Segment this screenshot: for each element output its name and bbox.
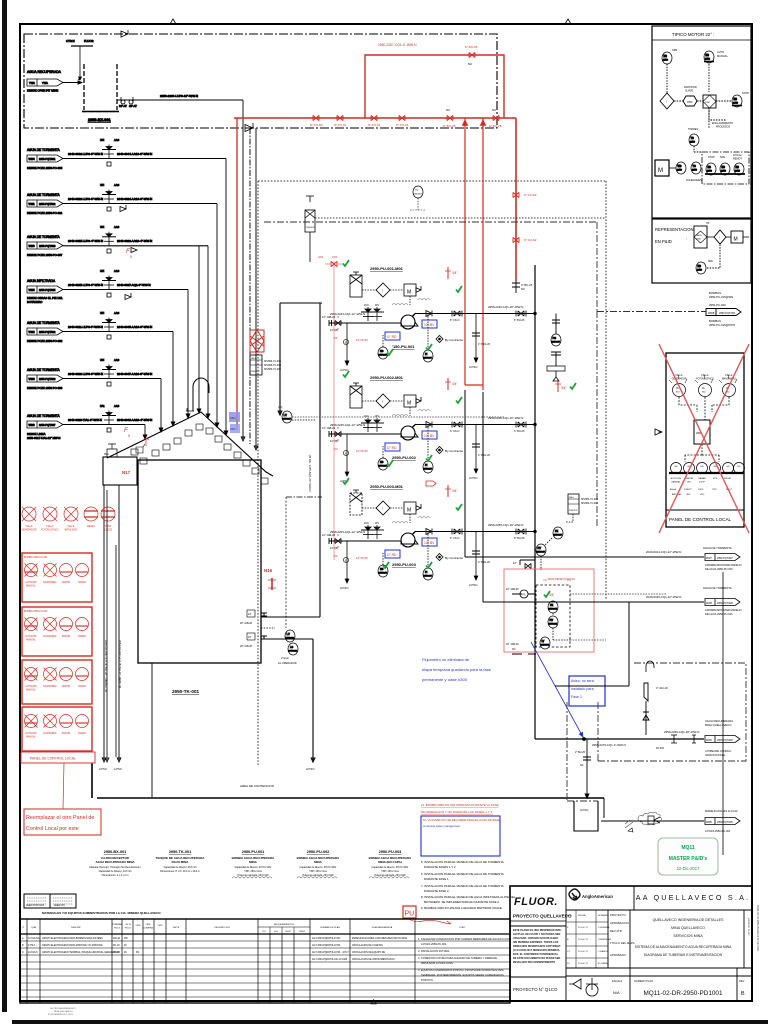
svg-text:HS: HS	[708, 166, 712, 169]
svg-text:MINA (EN CAPA): MINA (EN CAPA)	[378, 860, 402, 864]
wire row1 drop	[225, 159, 227, 434]
svg-text:2950-2200-LUP9-16"-WW-N: 2950-2200-LUP9-16"-WW-N	[160, 94, 198, 98]
svg-text:FOTOVOLTAICO: FOTOVOLTAICO	[41, 529, 59, 532]
svg-text:SUAVE: SUAVE	[685, 90, 694, 93]
svg-text:Capacidad de Diseno: 270.5 m3/: Capacidad de Diseno: 270.5 m3/hr	[300, 866, 337, 869]
svg-text:EN ESPERA: EN ESPERA	[43, 635, 57, 638]
svg-text:6" BU-25: 6" BU-25	[514, 536, 525, 540]
svg-text:MANUAL: MANUAL	[26, 585, 36, 588]
valve 8"FO-61	[337, 115, 343, 120]
signal dots to panel right	[570, 594, 666, 640]
diamond	[714, 230, 726, 244]
row5 feed	[27, 311, 173, 343]
svg-text:NC: NC	[521, 287, 525, 291]
svg-text:2950207: 2950207	[537, 552, 546, 554]
svg-text:AGUA DE TORMENTA: AGUA DE TORMENTA	[27, 235, 60, 239]
valve 6"BU-25	[518, 311, 524, 316]
pump P3 2950-PU-003	[401, 533, 415, 547]
svg-text:HS: HS	[380, 461, 384, 464]
svg-text:2950207: 2950207	[569, 510, 578, 512]
vent pair on suction	[361, 307, 375, 321]
svg-text:FL: FL	[523, 593, 527, 597]
svg-text:PI: PI	[425, 464, 428, 467]
svg-text:R.CHAVA: R.CHAVA	[598, 962, 608, 965]
svg-text:UFI: UFI	[100, 225, 104, 229]
svg-text:2950-2267-CQ1-4"-WW-N: 2950-2267-CQ1-4"-WW-N	[378, 43, 417, 47]
svg-text:2950: 2950	[697, 270, 703, 272]
left feed rows	[27, 138, 226, 440]
svg-text:CERT: CERT	[285, 931, 292, 933]
row6 feed	[27, 358, 161, 390]
svg-text:NOMBRE DE PLAN: NOMBRE DE PLAN	[320, 926, 340, 929]
svg-text:2950207: 2950207	[554, 535, 563, 537]
svg-text:12" (B): 12" (B)	[330, 546, 338, 550]
svg-text:empresas water management: empresas water management	[423, 824, 460, 828]
svg-text:2950: 2950	[707, 171, 713, 173]
svg-text:22-DIC-17: 22-DIC-17	[578, 963, 589, 965]
svg-text:TIPICO MOTOR 22° :: TIPICO MOTOR 22° :	[672, 32, 714, 37]
interlock diamond U2	[376, 394, 390, 408]
svg-text:2040-6045-AA1S-6"-WW-N: 2040-6045-AA1S-6"-WW-N	[117, 325, 152, 329]
wire row5 drop	[172, 332, 174, 425]
svg-text:PROYECTO N° Q1CO: PROYECTO N° Q1CO	[513, 987, 558, 992]
boundary dotted right x606	[605, 181, 607, 600]
svg-text:2950: 2950	[733, 103, 739, 105]
table rows content	[22, 937, 408, 961]
svg-text:CIRCULACION DE INSTRUMENTACION: CIRCULACION DE INSTRUMENTACION	[352, 958, 395, 961]
svg-text:YWA: YWA	[29, 81, 35, 85]
drain drop w/ valve	[574, 739, 604, 831]
svg-text:DE OPERACION Y NO DURANTE LAS: DE OPERACION Y NO DURANTE LAS FASES 1 Y …	[421, 810, 493, 814]
bubble torque TC	[689, 134, 699, 146]
svg-text:3/4": 3/4"	[452, 489, 458, 493]
svg-text:PARTIR: PARTIR	[62, 635, 71, 638]
svg-text:Z3: Z3	[334, 336, 338, 340]
signal dotted LT to right	[292, 419, 316, 421]
svg-text:AGUA DE TORMENTA: AGUA DE TORMENTA	[27, 414, 60, 418]
svg-text:2950-PU-015@P076: 2950-PU-015@P076	[709, 323, 735, 327]
svg-text:5: 5	[130, 255, 132, 259]
svg-text:Capacidad de Diseno: 270.5 m3/: Capacidad de Diseno: 270.5 m3/hr	[235, 866, 272, 869]
suction pipe	[329, 540, 401, 542]
valve 6"BU-25 NC main a	[447, 115, 453, 120]
svg-text:NUMERO PLAN: NUMERO PLAN	[634, 979, 653, 983]
svg-text:AGT-1503-PQDRT/9-10743 - 10747: AGT-1503-PQDRT/9-10743 - 10747	[312, 951, 349, 954]
svg-text:2950-D2-2477-4, 6.78" BU, 6"",: 2950-D2-2477-4, 6.78" BU, 6"", MW/8, IM	[118, 640, 122, 688]
svg-text:MANUAL: MANUAL	[717, 54, 728, 58]
svg-text:ESCALA: ESCALA	[612, 979, 623, 983]
exit pipe stormwater 2	[483, 586, 741, 616]
bubbles FE FIT	[548, 601, 558, 613]
svg-text:2950207: 2950207	[414, 194, 423, 196]
instrument FE/FIT chain	[553, 527, 563, 539]
svg-text:2950-PU-003: 2950-PU-003	[379, 850, 402, 854]
svg-text:UFI: UFI	[100, 269, 104, 273]
motor M	[731, 231, 743, 243]
svg-text:M: M	[407, 290, 411, 296]
svg-text:DIAGRAMA DE TUBERIAS E INSTRUM: DIAGRAMA DE TUBERIAS E INSTRUMENTACION	[644, 953, 723, 957]
svg-text:WW8: WW8	[706, 602, 713, 605]
svg-text:AL OPERADOR: AL OPERADOR	[278, 661, 297, 665]
svg-text:6" BU-25: 6" BU-25	[465, 45, 478, 49]
svg-text:MANUAL: MANUAL	[26, 689, 36, 692]
svg-text:Capacidad de Diseno: 26.5 m3: Capacidad de Diseno: 26.5 m3	[164, 866, 197, 869]
svg-text:DE AGUA 2950-PU-015: DE AGUA 2950-PU-015	[705, 567, 733, 571]
svg-text:A PSO: A PSO	[99, 767, 107, 771]
svg-text:Material: Hierro(p). Hormigon: Material: Hierro(p). Hormigon Sin Revest…	[90, 866, 142, 869]
svg-text:By Contractor: By Contractor	[445, 449, 463, 453]
svg-text:RAJO MINA: RAJO MINA	[172, 860, 190, 864]
svg-text:2950207: 2950207	[283, 419, 292, 421]
svg-text:DESDE POZA 2950-PC-001: DESDE POZA 2950-PC-001	[27, 211, 63, 215]
filter F1	[350, 275, 362, 297]
svg-text:'150-PU-001: '150-PU-001	[392, 344, 415, 349]
valve 12" JAB-26	[335, 320, 341, 325]
title block	[510, 886, 759, 1001]
typical motor detail box	[652, 26, 751, 218]
sample point PALL box mid	[250, 210, 281, 415]
svg-text:PARAR: PARAR	[698, 477, 706, 480]
svg-text:PARTIR: PARTIR	[62, 581, 71, 584]
instrument PI	[423, 350, 433, 362]
tag PU red box	[403, 906, 416, 918]
svg-text:AAS: AAS	[114, 358, 119, 362]
svg-text:2950-BX-001: 2950-BX-001	[88, 118, 111, 122]
svg-text:10. VOLUMEN NO SE REQUIERE PAR: 10. VOLUMEN NO SE REQUIERE PARA EL CASO …	[423, 818, 500, 822]
svg-text:M: M	[407, 401, 411, 407]
svg-text:DOS. EL CONTENIDO CONFIDENCIAL: DOS. EL CONTENIDO CONFIDENCIAL	[513, 953, 559, 956]
svg-text:OTRO: OTRO	[459, 927, 466, 929]
svg-text:PROYECTO: PROYECTO	[610, 913, 626, 917]
svg-text:SP2950-YC-00B: SP2950-YC-00B	[581, 499, 598, 501]
svg-text:QUA: QUA	[31, 926, 36, 929]
svg-text:PARAR: PARAR	[78, 732, 86, 735]
svg-text:U" RD: U" RD	[387, 446, 397, 450]
svg-text:GRUPO ELECTROGENO PARA BOMBAS: GRUPO ELECTROGENO PARA BOMBAS MINA SISTE…	[42, 937, 103, 940]
svg-text:WW7: WW7	[706, 557, 713, 560]
svg-text:2K: 2K	[124, 952, 127, 954]
red vent tick	[447, 267, 449, 279]
svg-text:PC-18: PC-18	[113, 945, 120, 947]
svg-text:Z3: Z3	[334, 447, 338, 451]
svg-text:SPE: SPE	[713, 478, 718, 480]
svg-text:UFI: UFI	[100, 311, 104, 315]
svg-text:2950-PC-020: 2950-PC-020	[709, 303, 726, 307]
strainer Y	[643, 661, 668, 735]
svg-text:RESET: RESET	[724, 478, 732, 480]
svg-text:SP2950-YC-00C: SP2950-YC-00C	[581, 503, 598, 505]
valve 6"BU-25 loop	[469, 52, 475, 57]
valve 6"CK-N w/flanges	[454, 311, 460, 316]
pennant on box bottom right	[245, 123, 253, 132]
svg-text:HS: HS	[698, 265, 702, 268]
svg-text:DESDE POZA 2950-PC-003: DESDE POZA 2950-PC-003	[27, 386, 63, 390]
svg-text:2950207: 2950207	[552, 342, 561, 344]
tank vent gooseneck	[193, 378, 209, 411]
svg-text:12" (B): 12" (B)	[330, 328, 338, 332]
svg-text:1. CANALIZAR CONDUCCION POR CA: 1. CANALIZAR CONDUCCION POR CAMARA DERRA…	[418, 937, 511, 941]
svg-text:TIPC: TIPC	[712, 489, 717, 491]
svg-text:TC: TC	[693, 165, 696, 168]
svg-text:TC: TC	[691, 137, 694, 140]
svg-text:2950: 2950	[690, 142, 696, 144]
svg-text:MINA QUELLAVECO: MINA QUELLAVECO	[671, 926, 705, 930]
filter F2	[350, 386, 362, 408]
row7 feed	[27, 404, 152, 440]
svg-text:AREA DE CONTENCION: AREA DE CONTENCION	[240, 784, 274, 788]
motor M typical	[655, 160, 669, 176]
svg-text:4" PSO-26: 4" PSO-26	[478, 454, 490, 457]
motor M3	[404, 502, 416, 514]
svg-text:1/NSPT: 1/NSPT	[684, 489, 692, 491]
svg-text:ESPECIFICACIONES CONCRETA/BLD: ESPECIFICACIONES CONCRETA/BLD DE POLIZAS	[352, 937, 408, 940]
check+3/4 near panel	[557, 380, 559, 392]
svg-text:7. INSTALACION PARA EL MANEJO: 7. INSTALACION PARA EL MANEJO DE AGUA DE…	[421, 884, 504, 888]
svg-text:9. BOMBAS 2950-PU-001/002 LLEV: 9. BOMBAS 2950-PU-001/002 LLEVARAN PARTI…	[421, 906, 503, 910]
svg-text:2950-PQT/001: 2950-PQT/001	[39, 158, 56, 161]
svg-text:IMPULSION A POZA LUNG.: IMPULSION A POZA LUNG.	[421, 961, 454, 965]
svg-text:2040-6027-AQ1-6"-WW-N: 2040-6027-AQ1-6"-WW-N	[117, 283, 151, 287]
svg-text:PARTIR: PARTIR	[62, 732, 71, 735]
svg-text:UFI: UFI	[100, 183, 104, 187]
svg-text:NOMBRE: NOMBRE	[598, 915, 608, 917]
svg-text:2. INSTALACION FUTURA.: 2. INSTALACION FUTURA.	[418, 949, 450, 953]
svg-text:8" FO-61: 8" FO-61	[334, 123, 347, 127]
header boxes leer	[24, 894, 50, 908]
svg-text:ORD: ORD	[158, 925, 163, 927]
svg-text:FE: FE	[550, 604, 553, 607]
svg-text:PARAR: PARAR	[78, 581, 86, 584]
roof nozzle boxes	[131, 424, 268, 484]
svg-text:12" BV: 12" BV	[424, 323, 435, 327]
svg-text:2040-6028-TIA1-6"-WW-N: 2040-6028-TIA1-6"-WW-N	[68, 418, 102, 422]
svg-text:DESDE POZA 2950-PC-005: DESDE POZA 2950-PC-005	[27, 166, 63, 170]
svg-text:By Contractor: By Contractor	[445, 556, 463, 560]
svg-text:AUTO/OFF: AUTO/OFF	[25, 635, 37, 638]
svg-text:DESDE OPEN PIT MINE: DESDE OPEN PIT MINE	[27, 89, 58, 93]
svg-text:2950-PU-002: 2950-PU-002	[392, 455, 417, 460]
svg-text:WS: WS	[375, 304, 379, 307]
svg-text:TDH: 260.2 mca: TDH: 260.2 mca	[309, 870, 327, 873]
svg-text:2040-6032-LUP9-6"-WW-N: 2040-6032-LUP9-6"-WW-N	[68, 152, 103, 156]
svg-text:22-Dic-2017: 22-Dic-2017	[677, 866, 700, 871]
svg-text:IMPRESO 22-DIC: IMPRESO 22-DIC	[747, 918, 749, 936]
svg-text:TDH: 260.2 mca: TDH: 260.2 mca	[244, 870, 262, 873]
rainwater exit w/ cloud	[601, 809, 740, 833]
svg-text:VEC: VEC	[700, 494, 705, 496]
svg-text:HS: HS	[664, 55, 668, 58]
svg-text:TEMPRANA. POSTERIORMENTE, EQUI: TEMPRANA. POSTERIORMENTE, EQUIPOS SERAN …	[421, 973, 504, 977]
suction pipe	[329, 433, 401, 435]
svg-text:2950: 2950	[230, 417, 236, 420]
svg-text:A PSO: A PSO	[469, 365, 478, 369]
svg-text:WWB: WWB	[708, 312, 715, 315]
svg-text:2950207: 2950207	[424, 469, 433, 471]
softstarter hexagon	[683, 96, 697, 106]
containment bund	[92, 763, 604, 798]
svg-text:DESDE POZA 2950-PC-002: DESDE POZA 2950-PC-002	[27, 339, 63, 343]
svg-text:PARTIR: PARTIR	[62, 685, 71, 688]
equipment summary column PU-002	[297, 850, 341, 878]
svg-text:6" BU-25: 6" BU-25	[514, 318, 525, 322]
drop wires from feed rows to tank roof	[143, 100, 258, 450]
svg-text:C.RAMOS: C.RAMOS	[598, 950, 609, 953]
svg-text:DE AGUA 2950-PU-016: DE AGUA 2950-PU-016	[705, 612, 733, 616]
svg-text:2950-BX-001: 2950-BX-001	[104, 850, 127, 854]
svg-text:MANUAL: MANUAL	[671, 481, 681, 484]
local stop subpanel dash-dot	[702, 152, 749, 184]
corner stamp text	[48, 1007, 77, 1016]
svg-text:PULG: PULG	[125, 928, 131, 930]
svg-text:2959-2244-AQ1-12"-WW-N: 2959-2244-AQ1-12"-WW-N	[330, 312, 365, 316]
svg-text:PU: PU	[405, 911, 415, 918]
svg-text:WW3: WW3	[29, 378, 36, 381]
wire suction manifold x320	[261, 303, 322, 771]
svg-text:COMPRA: COMPRA	[143, 927, 153, 930]
flowmeter keep box (light red)	[504, 569, 594, 652]
svg-text:FA1: FA1	[100, 404, 105, 408]
svg-text:Fase 1: Fase 1	[571, 695, 582, 699]
svg-text:5: 5	[128, 434, 130, 438]
svg-text:instalado para: instalado para	[571, 687, 594, 691]
svg-text:12"TP-05: 12"TP-05	[356, 449, 368, 453]
svg-text:2950205: 2950205	[549, 624, 558, 626]
svg-text:FALLA: FALLA	[47, 525, 54, 528]
svg-text:PG: PG	[553, 337, 557, 340]
wire feed to BX	[63, 82, 82, 84]
svg-text:22-DIC-17: 22-DIC-17	[578, 939, 589, 941]
tank nozzle upper right	[261, 613, 267, 616]
svg-text:BOTADERO: BOTADERO	[27, 300, 43, 304]
svg-text:N.S: N.S	[274, 931, 278, 933]
svg-text:HS: HS	[722, 166, 726, 169]
svg-text:2950205: 2950205	[549, 609, 558, 611]
svg-text:Capacidad de Diseno: 24.5 m3: Capacidad de Diseno: 24.5 m3	[99, 870, 132, 873]
svg-text:AGT-1503-PQDRT/9-10742: AGT-1503-PQDRT/9-10742	[312, 944, 341, 947]
svg-text:MANEJO AGUAS LLUVIA: MANEJO AGUAS LLUVIA	[705, 809, 738, 813]
svg-text:2K: 2K	[124, 945, 127, 947]
svg-text:U" RD: U" RD	[387, 553, 397, 557]
svg-text:2959-2246-CQ1-16"-WW-N: 2959-2246-CQ1-16"-WW-N	[488, 305, 523, 309]
svg-text:AAS: AAS	[114, 311, 119, 315]
svg-text:2040-6046-AA1S-4"-WW-N: 2040-6046-AA1S-4"-WW-N	[117, 418, 152, 422]
svg-text:FALLA: FALLA	[26, 525, 33, 528]
svg-text:AUTO/OFF: AUTO/OFF	[25, 581, 37, 584]
svg-text:2950-D2-2467-4, 6.78" BU, 26"": 2950-D2-2467-4, 6.78" BU, 26"", MW/WA, I…	[104, 640, 108, 692]
svg-text:WS: WS	[375, 415, 379, 418]
svg-text:6" FO-62: 6" FO-62	[524, 238, 537, 242]
svg-text:2950-PQT/000: 2950-PQT/000	[717, 739, 733, 742]
svg-text:5. INSTALACION PARA EL MANEJO: 5. INSTALACION PARA EL MANEJO DE AGUA DE…	[421, 860, 504, 864]
svg-text:2950-PQT/007: 2950-PQT/007	[39, 424, 56, 427]
svg-text:2950-TK-001: 2950-TK-001	[169, 850, 191, 854]
svg-text:2959-2254-AQ1-12"-WW-N: 2959-2254-AQ1-12"-WW-N	[330, 530, 365, 534]
svg-text:STOP: STOP	[708, 156, 715, 159]
svg-text:FALLA: FALLA	[726, 374, 733, 377]
signal to process interlock	[709, 108, 726, 120]
callout reemplazar box	[24, 809, 101, 835]
svg-text:2950: 2950	[677, 170, 683, 172]
svg-text:2950: 2950	[696, 239, 702, 241]
discharge header x535	[534, 265, 536, 739]
top border tick 2	[565, 19, 571, 24]
svg-text:PROYECTO QUELLAVECO: PROYECTO QUELLAVECO	[513, 914, 572, 919]
svg-text:WW5: WW5	[29, 289, 36, 292]
motor M1	[404, 284, 416, 296]
svg-text:EN ESPERA: EN ESPERA	[43, 581, 57, 584]
svg-text:PALL: PALL	[569, 496, 575, 499]
svg-text:NC: NC	[512, 648, 516, 651]
svg-text:8" FO-60: 8" FO-60	[310, 123, 323, 127]
svg-text:AGUA DE TORMENTA: AGUA DE TORMENTA	[27, 368, 60, 372]
svg-text:2950-PU-002-M01: 2950-PU-002-M01	[370, 375, 404, 380]
svg-text:2950207: 2950207	[379, 355, 388, 357]
wire row7 drop	[144, 425, 146, 438]
wire riser-to-exit2	[482, 392, 484, 602]
svg-text:ORD: ORD	[146, 924, 151, 926]
svg-text:CIRCULACION DE CASETAS: CIRCULACION DE CASETAS	[352, 944, 383, 947]
svg-text:LEER PROCSOS: LEER PROCSOS	[26, 905, 45, 907]
svg-text:LECTUAL DE FLUOR Y NO PODRA SE: LECTUAL DE FLUOR Y NO PODRA SER	[513, 933, 560, 936]
svg-text:APROBADO: APROBADO	[610, 953, 627, 957]
svg-text:UFI: UFI	[100, 358, 104, 362]
panel pump box 2	[22, 607, 92, 656]
svg-text:12": 12"	[513, 561, 517, 565]
pump P2 2950-PU-002	[401, 426, 415, 440]
discharge pipe	[415, 424, 535, 426]
instrument HS	[378, 347, 388, 359]
svg-text:2950-PQT/003: 2950-PQT/003	[39, 378, 56, 381]
suction risers continuation	[465, 390, 483, 602]
svg-text:3" JAC-49: 3" JAC-49	[656, 686, 668, 690]
svg-text:PI: PI	[425, 571, 428, 574]
svg-text:PALL: PALL	[251, 357, 257, 360]
note blue flujometro	[422, 657, 492, 682]
svg-text:PROCESOS: PROCESOS	[716, 126, 731, 129]
svg-text:LIT: LIT	[287, 633, 291, 636]
boundary dash-dot inner y222	[264, 221, 597, 223]
valve 8"FO-60	[313, 115, 319, 120]
svg-text:AW-18: AW-18	[113, 937, 121, 940]
svg-text:FLUOR: FLUOR	[84, 39, 93, 43]
svg-text:FOTOVOLTAICO: FOTOVOLTAICO	[696, 378, 714, 381]
svg-text:6" FO-62: 6" FO-62	[524, 193, 537, 197]
battery-limit box top-left (dash-dot)	[24, 34, 497, 128]
bubble STOP	[732, 95, 742, 107]
pipe red riser x465	[464, 118, 466, 385]
svg-text:REQUERIMIENTOS: REQUERIMIENTOS	[274, 924, 294, 926]
tank nozzle lower right	[261, 636, 267, 639]
svg-text:A POZA 2950-PC-001.: A POZA 2950-PC-001.	[421, 942, 447, 946]
panel callout leader	[63, 763, 64, 809]
header labels	[23, 923, 466, 933]
tank 2950-TK-001	[103, 378, 276, 694]
svg-text:C01: C01	[332, 255, 338, 259]
svg-text:MINA: MINA	[314, 860, 322, 864]
interlock diamond U3	[376, 501, 390, 515]
svg-text:2040-6025-LUP9-6"-WW-N: 2040-6025-LUP9-6"-WW-N	[68, 283, 103, 287]
svg-text:MINA QUELLAVECO: MINA QUELLAVECO	[705, 723, 732, 727]
panel pump box 3	[22, 660, 92, 704]
valve 10-AT pair	[121, 100, 133, 104]
PG manifold on header	[552, 314, 560, 335]
svg-text:SP2950-YC-03B: SP2950-YC-03B	[264, 365, 281, 367]
wire BX outlet drop	[241, 100, 245, 441]
svg-text:DWTR: DWTR	[173, 927, 180, 929]
svg-text:Flujometro se eliminara de: Flujometro se eliminara de	[422, 657, 470, 662]
blue highlighted tag on red riser	[229, 412, 240, 433]
svg-text:2950207: 2950207	[424, 358, 433, 360]
